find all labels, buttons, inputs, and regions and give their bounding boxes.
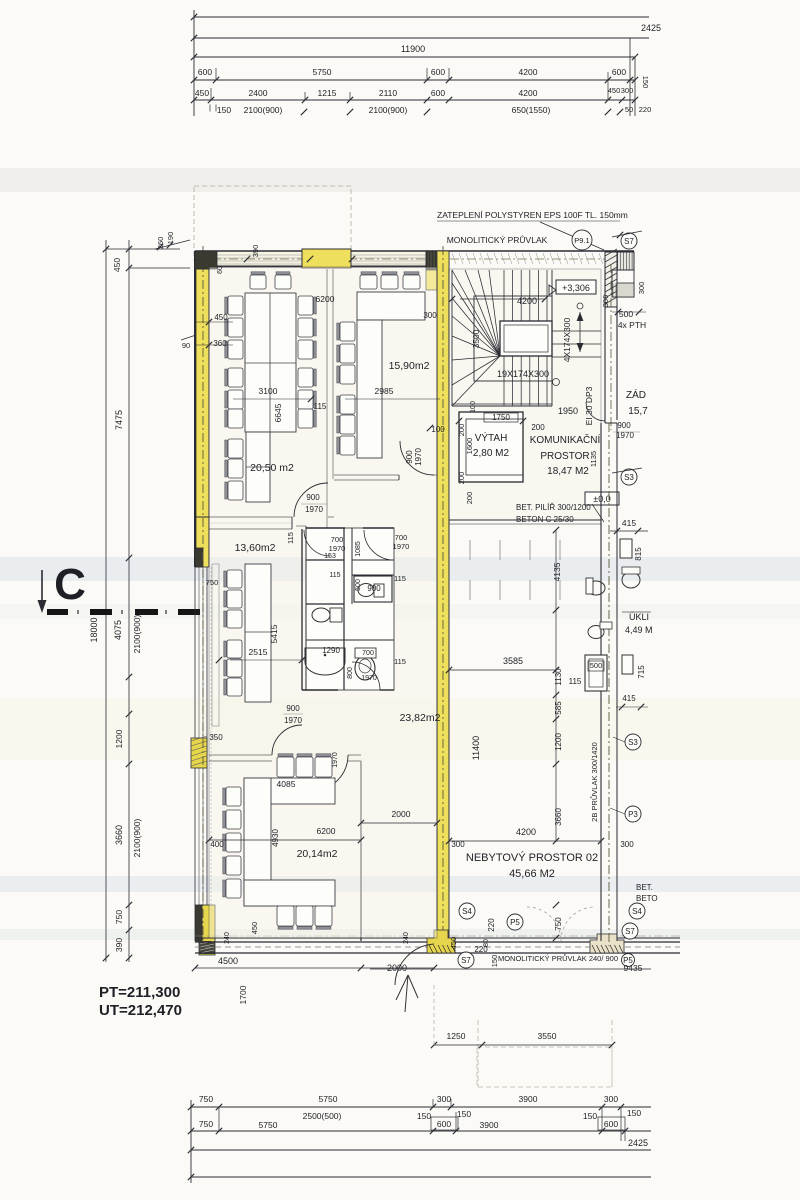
svg-text:18,47 M2: 18,47 M2	[547, 466, 589, 477]
svg-text:2100(900): 2100(900)	[132, 614, 142, 653]
svg-text:60: 60	[217, 266, 224, 274]
svg-text:715: 715	[637, 665, 646, 679]
svg-text:2985: 2985	[375, 386, 394, 396]
svg-text:200: 200	[465, 492, 474, 505]
svg-text:1085: 1085	[355, 541, 362, 557]
svg-text:6200: 6200	[316, 294, 335, 304]
svg-text:200: 200	[457, 424, 466, 437]
svg-text:ZÁD: ZÁD	[626, 388, 646, 401]
svg-text:200: 200	[457, 472, 466, 485]
svg-text:585: 585	[554, 701, 563, 715]
svg-text:MONOLITICKÝ PRŮVLAK: MONOLITICKÝ PRŮVLAK	[447, 234, 548, 245]
svg-text:1135: 1135	[589, 451, 598, 467]
svg-text:400: 400	[210, 840, 224, 849]
svg-text:415: 415	[622, 518, 636, 528]
svg-text:1970: 1970	[414, 448, 423, 466]
svg-text:115: 115	[329, 572, 340, 579]
svg-text:3550: 3550	[538, 1031, 557, 1041]
svg-text:500: 500	[619, 309, 633, 319]
svg-text:4075: 4075	[113, 620, 123, 640]
svg-text:5750: 5750	[313, 67, 332, 77]
svg-text:P9.1: P9.1	[574, 236, 589, 245]
svg-text:450: 450	[449, 937, 458, 950]
svg-text:9435: 9435	[624, 963, 643, 973]
svg-text:1970: 1970	[332, 752, 339, 768]
svg-text:20,14m2: 20,14m2	[297, 848, 338, 860]
svg-text:2400: 2400	[249, 88, 268, 98]
svg-text:S3: S3	[628, 738, 638, 747]
svg-text:2100(900): 2100(900)	[369, 105, 408, 115]
svg-text:S4: S4	[632, 907, 642, 916]
svg-text:153: 153	[324, 553, 336, 560]
svg-text:3660: 3660	[554, 808, 563, 826]
svg-text:1750: 1750	[492, 413, 510, 422]
svg-text:300: 300	[601, 295, 610, 308]
svg-text:15,7: 15,7	[628, 406, 648, 417]
svg-text:150: 150	[457, 1109, 471, 1119]
svg-text:+3,306: +3,306	[562, 283, 590, 293]
svg-text:BETO: BETO	[636, 894, 658, 903]
svg-text:±0,0: ±0,0	[593, 494, 610, 504]
svg-text:300: 300	[451, 840, 465, 849]
svg-text:2110: 2110	[379, 88, 398, 98]
svg-text:700: 700	[331, 535, 344, 544]
svg-text:90: 90	[182, 341, 190, 350]
svg-text:1970: 1970	[329, 544, 346, 553]
svg-text:2100(900): 2100(900)	[132, 818, 142, 857]
svg-text:VÝTAH: VÝTAH	[475, 431, 508, 444]
svg-text:18000: 18000	[89, 617, 99, 642]
svg-text:4X174X300: 4X174X300	[562, 318, 572, 363]
svg-text:3500: 3500	[471, 329, 481, 348]
svg-text:4,49 M: 4,49 M	[625, 625, 653, 635]
svg-text:700: 700	[395, 533, 408, 542]
svg-text:3900: 3900	[480, 1120, 499, 1130]
svg-text:7475: 7475	[114, 410, 124, 430]
svg-text:19X174X300: 19X174X300	[497, 369, 549, 379]
svg-text:600: 600	[431, 88, 445, 98]
svg-text:4500: 4500	[218, 956, 238, 966]
svg-text:UT=212,470: UT=212,470	[99, 1002, 182, 1019]
svg-text:450: 450	[195, 88, 209, 98]
svg-text:1600: 1600	[465, 438, 474, 455]
svg-text:2425: 2425	[641, 23, 661, 33]
svg-text:415: 415	[622, 694, 636, 703]
svg-text:500: 500	[590, 661, 603, 670]
svg-text:220: 220	[487, 918, 496, 932]
svg-text:815: 815	[634, 547, 643, 561]
svg-text:1215: 1215	[318, 88, 337, 98]
svg-text:750: 750	[199, 1119, 213, 1129]
svg-text:2100(900): 2100(900)	[244, 105, 283, 115]
svg-text:800: 800	[347, 667, 354, 679]
svg-text:150: 150	[583, 1111, 597, 1121]
svg-text:PROSTOR: PROSTOR	[540, 451, 589, 462]
svg-text:3100: 3100	[259, 386, 278, 396]
svg-text:15,90m2: 15,90m2	[389, 360, 430, 372]
svg-text:BET.: BET.	[636, 883, 653, 892]
svg-text:2425: 2425	[628, 1138, 648, 1148]
svg-text:45,66 M2: 45,66 M2	[509, 868, 555, 880]
svg-text:500: 500	[355, 579, 362, 591]
svg-text:450: 450	[250, 922, 259, 935]
svg-text:360: 360	[213, 339, 227, 348]
svg-text:S7: S7	[461, 956, 471, 965]
svg-text:1250: 1250	[447, 1031, 466, 1041]
svg-text:2000: 2000	[392, 809, 411, 819]
svg-text:600: 600	[604, 1119, 618, 1129]
svg-text:4x PTH: 4x PTH	[618, 320, 646, 330]
svg-text:1200: 1200	[554, 733, 563, 751]
svg-text:115: 115	[569, 677, 582, 686]
svg-text:1970: 1970	[305, 505, 323, 514]
svg-text:900: 900	[617, 421, 631, 430]
svg-text:1970: 1970	[361, 675, 377, 682]
svg-text:750: 750	[206, 578, 219, 587]
svg-text:4135: 4135	[552, 562, 562, 581]
svg-text:3660: 3660	[114, 825, 124, 845]
svg-text:S3: S3	[624, 473, 634, 482]
svg-text:450: 450	[112, 258, 122, 272]
svg-text:1200: 1200	[114, 729, 124, 748]
svg-text:300: 300	[637, 282, 646, 295]
svg-text:2B PRŮVLAK 300/1420: 2B PRŮVLAK 300/1420	[590, 742, 599, 822]
svg-text:4200: 4200	[517, 296, 537, 306]
svg-text:900: 900	[286, 704, 300, 713]
svg-text:ÚKLI: ÚKLI	[629, 612, 649, 622]
svg-text:150: 150	[217, 105, 231, 115]
svg-text:2,80 M2: 2,80 M2	[473, 448, 510, 459]
svg-text:4085: 4085	[277, 779, 296, 789]
svg-text:P5: P5	[510, 918, 520, 927]
svg-text:1700: 1700	[238, 985, 248, 1004]
svg-text:2500(500): 2500(500)	[303, 1111, 342, 1121]
svg-text:240: 240	[403, 932, 410, 944]
svg-text:1950: 1950	[558, 406, 578, 416]
svg-text:350: 350	[209, 733, 223, 742]
svg-text:220: 220	[639, 105, 652, 114]
svg-text:600: 600	[431, 67, 445, 77]
svg-text:750: 750	[199, 1094, 213, 1104]
svg-text:1290: 1290	[322, 646, 340, 655]
svg-text:1970: 1970	[284, 716, 302, 725]
svg-text:150: 150	[417, 1111, 431, 1121]
svg-text:450: 450	[608, 86, 621, 95]
svg-text:4930: 4930	[271, 829, 280, 847]
svg-text:600: 600	[612, 67, 626, 77]
svg-text:700: 700	[362, 650, 374, 657]
svg-text:300: 300	[604, 1094, 618, 1104]
svg-text:MONOLITICKÝ PRŮVLAK 240/ 900: MONOLITICKÝ PRŮVLAK 240/ 900	[498, 954, 618, 963]
svg-text:50: 50	[625, 105, 633, 114]
svg-text:S7: S7	[625, 927, 635, 936]
svg-text:390: 390	[114, 938, 124, 952]
svg-text:1970: 1970	[393, 542, 410, 551]
svg-text:650(1550): 650(1550)	[512, 105, 551, 115]
svg-text:S4: S4	[462, 907, 472, 916]
svg-text:ZATEPLENÍ POLYSTYREN EPS 100F: ZATEPLENÍ POLYSTYREN EPS 100F TL. 150mm	[437, 210, 628, 220]
svg-text:300: 300	[437, 1094, 451, 1104]
svg-text:3900: 3900	[519, 1094, 538, 1104]
svg-text:5750: 5750	[319, 1094, 338, 1104]
svg-text:NEBYTOVÝ PROSTOR 02: NEBYTOVÝ PROSTOR 02	[466, 851, 598, 864]
svg-text:190: 190	[166, 232, 175, 245]
svg-text:4200: 4200	[519, 88, 538, 98]
svg-text:EI 30 DP3: EI 30 DP3	[584, 386, 594, 425]
svg-text:300: 300	[423, 311, 437, 320]
svg-text:KOMUNIKAČNÍ: KOMUNIKAČNÍ	[530, 433, 601, 446]
svg-text:200: 200	[531, 423, 545, 432]
svg-text:PT=211,300: PT=211,300	[99, 984, 180, 1001]
svg-text:390: 390	[251, 245, 260, 258]
svg-text:P3: P3	[628, 810, 638, 819]
svg-text:900: 900	[367, 584, 381, 593]
svg-text:115: 115	[394, 657, 406, 666]
svg-text:5415: 5415	[269, 624, 279, 643]
svg-text:600: 600	[198, 67, 212, 77]
svg-text:115: 115	[286, 532, 295, 544]
svg-text:2515: 2515	[249, 647, 268, 657]
svg-text:150: 150	[641, 76, 650, 89]
svg-text:240: 240	[224, 932, 231, 944]
svg-text:900: 900	[405, 450, 414, 464]
svg-text:450: 450	[214, 313, 228, 322]
svg-text:6200: 6200	[317, 826, 336, 836]
svg-text:C: C	[54, 560, 86, 609]
svg-text:300: 300	[620, 840, 634, 849]
svg-text:20,50 m2: 20,50 m2	[250, 462, 294, 474]
svg-text:BET. PILÍŘ 300/1200: BET. PILÍŘ 300/1200	[516, 503, 591, 512]
svg-text:11900: 11900	[401, 44, 425, 54]
svg-text:S7: S7	[624, 237, 634, 246]
svg-text:360: 360	[156, 237, 165, 250]
svg-text:1970: 1970	[616, 431, 634, 440]
svg-text:4200: 4200	[519, 67, 538, 77]
svg-text:100: 100	[470, 401, 477, 413]
svg-text:600: 600	[437, 1119, 451, 1129]
svg-text:900: 900	[306, 493, 320, 502]
svg-text:115: 115	[394, 574, 406, 583]
svg-text:750: 750	[114, 910, 124, 924]
svg-text:80: 80	[483, 939, 490, 947]
svg-text:750: 750	[554, 917, 563, 931]
svg-text:5750: 5750	[259, 1120, 278, 1130]
svg-text:23,82m2: 23,82m2	[400, 712, 441, 724]
svg-text:3585: 3585	[503, 656, 523, 666]
svg-text:300: 300	[621, 86, 634, 95]
svg-text:100: 100	[431, 425, 445, 434]
svg-text:13,60m2: 13,60m2	[235, 542, 276, 554]
svg-text:115: 115	[314, 402, 327, 411]
svg-text:6645: 6645	[273, 403, 283, 422]
svg-text:4200: 4200	[516, 827, 536, 837]
svg-text:11400: 11400	[471, 736, 481, 760]
svg-text:150: 150	[627, 1108, 641, 1118]
